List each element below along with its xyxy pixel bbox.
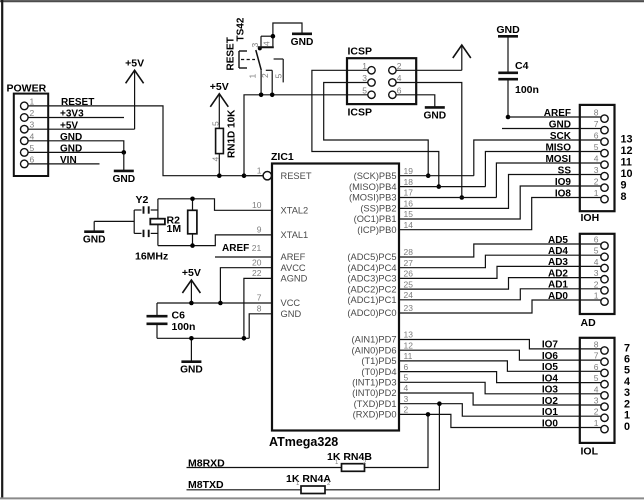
svg-text:GND: GND — [83, 235, 106, 246]
wire RESET net from POWER pin1 to RN1D/TS42 node — [28, 106, 263, 176]
svg-text:2: 2 — [30, 108, 35, 118]
svg-text:AD5: AD5 — [548, 235, 568, 246]
junction MISO on ZIC1 pin18 wire — [437, 184, 442, 189]
junction POWER GND — [122, 150, 127, 155]
svg-text:3: 3 — [250, 43, 260, 48]
svg-text:(MISO)PB4: (MISO)PB4 — [349, 182, 397, 192]
svg-text:28: 28 — [404, 247, 414, 257]
svg-text:RESET: RESET — [281, 171, 312, 181]
wire MOSI to IOH pin4 — [496, 163, 601, 198]
svg-text:5: 5 — [362, 85, 367, 95]
svg-text:(ADC2)PC2: (ADC2)PC2 — [347, 284, 396, 294]
svg-text:9: 9 — [257, 225, 262, 235]
svg-text:8: 8 — [594, 108, 599, 118]
svg-text:100n: 100n — [172, 321, 196, 333]
wire TS42 pins1/2 down to RESET node — [244, 95, 368, 176]
net label M8TXD — [188, 479, 224, 491]
wire RN1D to RESET node — [218, 154, 220, 176]
svg-text:16: 16 — [404, 199, 414, 209]
svg-text:GND: GND — [549, 119, 571, 130]
svg-text:2: 2 — [260, 73, 270, 78]
wires AD5-AD0 nets ZIC1 PC5-PC0 to AD connector — [399, 244, 601, 313]
svg-text:RN1D 10K: RN1D 10K — [227, 109, 238, 158]
svg-text:1K RN4A: 1K RN4A — [286, 473, 331, 485]
svg-text:15: 15 — [404, 209, 414, 219]
wire MOSI net (ICSP pin4 segment) — [396, 83, 462, 198]
svg-text:IO2: IO2 — [542, 396, 559, 407]
svg-text:11: 11 — [621, 156, 632, 168]
wire AVCC ZIC1 pin20 to VCC rail — [220, 268, 272, 303]
svg-text:5: 5 — [30, 143, 35, 153]
svg-text:(ADC1)PC1: (ADC1)PC1 — [347, 295, 396, 305]
ground symbol below POWER — [112, 152, 135, 185]
svg-text:7: 7 — [594, 351, 599, 361]
junction AVCC on VCC rail — [218, 301, 223, 306]
junction RESET node at TS42 branch — [242, 173, 247, 178]
svg-text:AREF: AREF — [281, 252, 306, 262]
svg-text:3: 3 — [594, 396, 599, 406]
wire GND ZIC1 pin8 to GND rail — [249, 314, 272, 339]
svg-text:13: 13 — [404, 330, 414, 340]
wire ICSP pin6 to GND — [396, 95, 435, 108]
svg-text:(INT0)PD2: (INT0)PD2 — [352, 388, 396, 398]
junction TS42 pin4 node — [271, 34, 276, 39]
junction RESET node at RN1D — [217, 173, 222, 178]
connector IOL (8-pin header) — [542, 338, 630, 458]
IC U1 ZIC1 ATmega328 body — [269, 151, 399, 449]
svg-text:2: 2 — [594, 279, 599, 289]
wire RN4A to ZIC1 pin3 TXD — [325, 404, 439, 490]
svg-text:IO5: IO5 — [542, 362, 559, 373]
svg-text:11: 11 — [404, 351, 413, 361]
svg-text:IO7: IO7 — [542, 340, 559, 351]
svg-text:(ADC3)PC3: (ADC3)PC3 — [347, 274, 396, 284]
wire XTAL1 node (bottom) — [158, 234, 272, 246]
wire GND rail below C6 — [157, 337, 249, 339]
svg-text:(ADC0)PC0: (ADC0)PC0 — [347, 308, 396, 318]
svg-text:(TXD)PD1: (TXD)PD1 — [354, 399, 397, 409]
wire AREF stub at ZIC1 pin21 — [215, 243, 272, 257]
wire TS42 pins3/4 to GND — [273, 23, 302, 36]
svg-text:3: 3 — [594, 165, 599, 175]
junction R2 top — [190, 197, 195, 202]
wire AREF to IOH pin8 — [508, 116, 601, 118]
svg-text:3: 3 — [594, 268, 599, 278]
svg-text:(ICP)PB0: (ICP)PB0 — [357, 225, 396, 235]
svg-text:AREF: AREF — [544, 108, 571, 119]
wire VCC rail to ZIC1 pin7 — [157, 302, 272, 304]
svg-text:1: 1 — [257, 165, 262, 175]
svg-text:6: 6 — [397, 85, 402, 95]
ground symbol at Y2 — [83, 221, 106, 245]
svg-text:IO4: IO4 — [542, 373, 559, 384]
wire GND from POWER pin5 — [28, 151, 124, 153]
svg-text:IO0: IO0 — [542, 418, 559, 429]
svg-text:4: 4 — [594, 257, 599, 267]
svg-text:MOSI: MOSI — [545, 154, 571, 165]
svg-text:TS42: TS42 — [236, 17, 247, 41]
svg-text:20: 20 — [252, 257, 262, 267]
wire MISO to IOH pin5 — [485, 152, 601, 187]
svg-text:10: 10 — [621, 168, 633, 180]
svg-text:AGND: AGND — [281, 274, 308, 284]
svg-text:1: 1 — [594, 188, 599, 198]
capacitor C4 100n — [498, 36, 539, 117]
svg-text:ATmega328: ATmega328 — [269, 435, 338, 449]
svg-text:10: 10 — [252, 200, 262, 210]
wire ZIC1 pin18 PB4 — [399, 186, 485, 188]
svg-text:100n: 100n — [515, 84, 539, 96]
svg-text:IO3: IO3 — [542, 385, 559, 396]
svg-text:5: 5 — [404, 373, 409, 383]
junction RXD net on ZIC1 pin2 wire — [426, 412, 431, 417]
svg-text:(RXD)PD0: (RXD)PD0 — [353, 410, 397, 420]
wire +5V from POWER pin3 — [28, 128, 135, 130]
svg-text:16MHz: 16MHz — [135, 251, 168, 263]
svg-text:IOH: IOH — [581, 212, 600, 224]
svg-text:IO8: IO8 — [555, 188, 572, 199]
pin names/numbers right side of ZIC1 — [347, 166, 413, 420]
svg-text:(OC1)PB1: (OC1)PB1 — [354, 214, 397, 224]
svg-text:IO1: IO1 — [542, 407, 559, 418]
wire +3V3 stub from POWER pin2 — [28, 117, 124, 119]
net labels on POWER pins — [60, 97, 94, 166]
power symbol +5V on VCC rail — [182, 267, 201, 303]
svg-text:7: 7 — [624, 342, 630, 354]
svg-text:(MOSI)PB3: (MOSI)PB3 — [349, 193, 397, 203]
svg-text:7: 7 — [594, 119, 599, 129]
svg-text:4: 4 — [404, 383, 409, 393]
power symbol +5V (unlabelled arrow) at ICSP pin2 — [453, 45, 471, 70]
svg-text:VCC: VCC — [281, 298, 301, 308]
wire SCK to IOH pin6 — [474, 140, 601, 176]
svg-text:2: 2 — [397, 61, 402, 71]
svg-text:(ADC4)PC4: (ADC4)PC4 — [347, 263, 396, 273]
svg-text:18: 18 — [404, 177, 414, 187]
svg-text:26: 26 — [404, 269, 414, 279]
svg-text:17: 17 — [404, 188, 414, 198]
svg-text:3: 3 — [362, 73, 367, 83]
svg-text:ICSP: ICSP — [348, 107, 373, 119]
svg-text:2: 2 — [404, 405, 409, 415]
svg-text:3: 3 — [404, 394, 409, 404]
wire AGND ZIC1 pin22 to GND rail — [244, 278, 272, 338]
svg-text:Y2: Y2 — [136, 194, 149, 206]
svg-text:6: 6 — [624, 354, 630, 366]
svg-text:(INT1)PD3: (INT1)PD3 — [352, 378, 396, 388]
power symbol +5V above RN1D — [210, 81, 229, 129]
junction +5V arrow on VCC rail — [189, 301, 194, 306]
svg-text:1: 1 — [30, 96, 35, 106]
svg-text:6: 6 — [594, 131, 599, 141]
junction C4 on AREF wire — [506, 115, 511, 120]
svg-text:4: 4 — [594, 154, 599, 164]
wires IO7-IO0 nets ZIC1 PD7-PD0 to IOL connector — [399, 340, 601, 428]
svg-text:5: 5 — [273, 74, 283, 79]
junction TS42 pin2 on wire — [270, 93, 275, 98]
svg-text:4: 4 — [594, 384, 599, 394]
svg-text:+5V: +5V — [182, 267, 201, 279]
svg-text:6: 6 — [404, 362, 409, 372]
wire XTAL2 node (top) — [158, 199, 272, 211]
svg-text:4: 4 — [30, 131, 35, 141]
junction TS42 pin1 on wire — [259, 93, 264, 98]
ground symbol above C4 (inverted) — [496, 24, 520, 36]
svg-text:22: 22 — [252, 268, 262, 278]
svg-text:(SS)PB2: (SS)PB2 — [360, 204, 396, 214]
svg-text:1M: 1M — [167, 223, 182, 235]
pushbutton TS42 (RESET) — [226, 17, 284, 95]
svg-text:9: 9 — [621, 179, 627, 191]
svg-text:5: 5 — [594, 373, 599, 383]
svg-text:23: 23 — [404, 303, 414, 313]
svg-text:IOL: IOL — [581, 446, 599, 458]
svg-text:1: 1 — [247, 74, 257, 79]
svg-text:GND: GND — [281, 309, 302, 319]
junction TXD net on ZIC1 pin3 wire — [437, 401, 442, 406]
svg-text:C6: C6 — [172, 310, 186, 322]
svg-text:2: 2 — [594, 407, 599, 417]
wire ICSP pin2 to +5V arrow — [396, 69, 462, 71]
svg-text:MISO: MISO — [545, 142, 571, 153]
svg-text:1: 1 — [624, 410, 630, 422]
svg-text:1: 1 — [594, 291, 599, 301]
svg-text:AVCC: AVCC — [281, 263, 306, 273]
svg-text:12: 12 — [621, 145, 633, 157]
svg-text:(ADC5)PC5: (ADC5)PC5 — [347, 252, 396, 262]
wire RN4B to ZIC1 pin2 RXD — [365, 414, 429, 467]
junction MOSI on ZIC1 pin17 wire — [460, 195, 465, 200]
svg-text:5: 5 — [594, 246, 599, 256]
svg-text:13: 13 — [621, 133, 633, 145]
resistor R2 1M — [167, 210, 197, 235]
svg-text:+5V: +5V — [210, 81, 229, 93]
svg-text:0: 0 — [624, 421, 630, 433]
connector POWER (6-pin header) — [7, 83, 49, 177]
svg-text:GND: GND — [496, 24, 520, 36]
wire GND stub to IOH pin7 — [502, 128, 601, 130]
wire IO9 net ZIC1 pin15 to IOH pin2 — [399, 186, 601, 219]
junction GND symbol on rail — [189, 336, 194, 341]
junction AGND on GND rail — [242, 336, 247, 341]
ground symbol on GND rail — [180, 338, 203, 375]
resistor RN4A 1K — [286, 473, 331, 494]
svg-text:ZIC1: ZIC1 — [271, 151, 294, 163]
wire VIN stub from POWER pin6 — [28, 163, 100, 165]
svg-text:(T1)PD5: (T1)PD5 — [361, 356, 396, 366]
crystal Y2 16MHz (resonator) — [94, 194, 168, 263]
svg-text:GND: GND — [291, 37, 314, 48]
wire GND from POWER pin4 — [28, 141, 124, 153]
svg-text:AD2: AD2 — [548, 268, 568, 279]
svg-text:6: 6 — [594, 235, 599, 245]
wire SCK net (ICSP pin3 segment) — [324, 83, 429, 176]
wire ZIC1 pin17 PB3 — [399, 197, 496, 199]
svg-text:14: 14 — [404, 220, 414, 230]
svg-text:6: 6 — [594, 362, 599, 372]
svg-text:(T0)PD4: (T0)PD4 — [361, 367, 396, 377]
svg-text:AD4: AD4 — [548, 246, 568, 257]
connector AD (6-pin header) — [548, 234, 615, 329]
svg-text:21: 21 — [252, 243, 262, 253]
svg-text:IO6: IO6 — [542, 351, 559, 362]
svg-text:6: 6 — [30, 154, 35, 164]
junction R2 bottom — [190, 243, 195, 248]
svg-text:GND: GND — [112, 174, 135, 185]
svg-text:2: 2 — [594, 177, 599, 187]
svg-text:3: 3 — [624, 387, 630, 399]
svg-text:GND: GND — [180, 365, 203, 376]
svg-text:1: 1 — [362, 61, 367, 71]
svg-text:5: 5 — [624, 365, 630, 377]
svg-text:19: 19 — [404, 166, 414, 176]
ground symbol at TS42 — [291, 34, 314, 48]
resistor RN1D 10K (reset pull-up) — [211, 109, 238, 162]
ground symbol at ICSP — [423, 107, 446, 121]
svg-text:IO9: IO9 — [555, 177, 572, 188]
svg-text:4: 4 — [397, 73, 402, 83]
svg-text:ICSP: ICSP — [348, 46, 373, 58]
svg-text:SCK: SCK — [550, 131, 572, 142]
svg-text:8: 8 — [594, 339, 599, 349]
svg-text:XTAL2: XTAL2 — [281, 206, 309, 216]
svg-text:AD0: AD0 — [548, 291, 568, 302]
svg-text:1: 1 — [594, 418, 599, 428]
svg-text:(AIN0)PD6: (AIN0)PD6 — [352, 345, 397, 355]
wire M8RXD to RN4B — [187, 467, 342, 469]
svg-text:5: 5 — [594, 142, 599, 152]
inversion bubble on ZIC1 RESET pin1 — [244, 172, 271, 180]
junction SCK on ZIC1 pin19 wire — [426, 173, 431, 178]
svg-text:25: 25 — [404, 279, 414, 289]
svg-text:8: 8 — [621, 191, 627, 203]
svg-text:2: 2 — [624, 398, 630, 410]
capacitor C6 100n — [147, 303, 196, 338]
svg-text:AREF: AREF — [222, 243, 249, 254]
svg-text:27: 27 — [404, 258, 414, 268]
svg-text:(SCK)PB5: (SCK)PB5 — [354, 171, 397, 181]
net label M8RXD — [188, 458, 225, 470]
svg-text:4: 4 — [624, 376, 630, 388]
svg-text:4: 4 — [261, 41, 271, 46]
svg-text:SS: SS — [558, 165, 572, 176]
svg-text:XTAL1: XTAL1 — [281, 230, 309, 240]
svg-text:3: 3 — [30, 120, 35, 130]
svg-text:AD: AD — [581, 317, 597, 329]
wire MISO net (ICSP pin1 segment) — [312, 70, 439, 186]
svg-text:C4: C4 — [515, 60, 529, 72]
svg-text:7: 7 — [257, 293, 262, 303]
svg-text:AD1: AD1 — [548, 280, 568, 291]
svg-text:AD3: AD3 — [548, 257, 568, 268]
svg-text:12: 12 — [404, 340, 414, 350]
wire ZIC1 pin19 PB5 — [399, 175, 474, 177]
wire IO8 net ZIC1 pin14 to IOH pin1 — [399, 198, 601, 230]
svg-text:(AIN1)PD7: (AIN1)PD7 — [352, 335, 397, 345]
power symbol +5V at POWER pin3 — [125, 57, 144, 129]
pin names/numbers left side of ZIC1 — [252, 165, 312, 319]
connector ICSP (2x3 header) — [347, 46, 416, 119]
wire SS net ZIC1 pin16 to IOH pin3 — [399, 175, 601, 209]
svg-text:24: 24 — [404, 290, 414, 300]
svg-text:GND: GND — [423, 110, 446, 121]
connector IOH (8-pin header) — [544, 105, 633, 224]
resistor RN4B 1K — [327, 451, 372, 472]
svg-text:8: 8 — [257, 303, 262, 313]
svg-text:+5V: +5V — [125, 57, 144, 69]
wire M8TXD to RN4A — [187, 489, 302, 491]
